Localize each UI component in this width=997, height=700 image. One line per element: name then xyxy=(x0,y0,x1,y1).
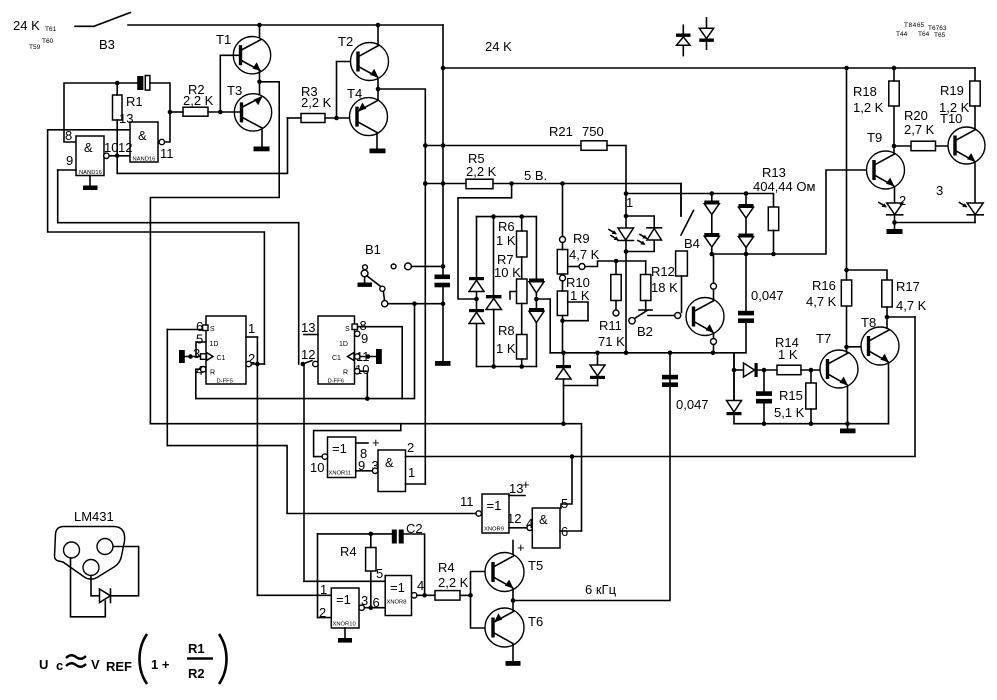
switch B2 lever xyxy=(635,311,648,319)
wire T1 emitter to T3 xyxy=(259,72,261,95)
wire T2-T4 node to x425 column xyxy=(378,89,425,484)
ground LED2 stem xyxy=(894,223,896,230)
node y254 chainB junction xyxy=(744,252,749,257)
svg-text:XNOR11: XNOR11 xyxy=(329,471,352,477)
LM431 pin circle center xyxy=(83,560,99,576)
wire right chain node to big line xyxy=(536,299,550,353)
node y423 T7 junction xyxy=(845,421,850,426)
wire diode pair right bottom xyxy=(597,379,599,386)
svg-text:750: 750 xyxy=(582,124,604,139)
wire FF5 1D loop xyxy=(196,342,206,357)
wire R2 right to T3 base xyxy=(208,111,242,113)
diode right chain upper xyxy=(529,279,544,294)
wire left rail B xyxy=(58,170,299,364)
bubble FF6 C1 xyxy=(355,354,360,359)
wire T1 base xyxy=(220,55,240,112)
wire middle chain bottom xyxy=(493,310,495,367)
ground XNOR10 xyxy=(338,638,352,643)
flip-flop D-FF6 box xyxy=(318,316,355,384)
resistor R9 xyxy=(557,250,567,275)
svg-text:1D: 1D xyxy=(339,341,348,348)
wire R4 top lead xyxy=(370,534,372,548)
bubble XNOR11 input xyxy=(322,454,327,459)
wire R18 bottom lead xyxy=(893,106,895,146)
bubble XNOR9 input xyxy=(476,511,481,516)
clock triangle C1 FF6 xyxy=(348,353,355,361)
node FF6 pin12 junction xyxy=(301,362,306,367)
node pin5 y456 junction xyxy=(570,454,575,459)
wire R9 wiper to y261 xyxy=(585,261,646,267)
diode pair left xyxy=(556,365,571,379)
svg-text:B1: B1 xyxy=(365,242,381,257)
node y352 x563 junction xyxy=(561,351,566,356)
wire FF6 pin13 stub xyxy=(304,334,318,336)
node base column junction xyxy=(468,593,473,598)
svg-text:R8: R8 xyxy=(498,323,515,338)
resistor R4 oscillator xyxy=(366,548,376,572)
node R2 left junction xyxy=(168,110,173,115)
capacitor cap2 upper plate xyxy=(756,391,772,396)
svg-text:11: 11 xyxy=(160,146,174,161)
node y261 R11 junction xyxy=(614,259,619,264)
capacitor NAND oscillator left plate xyxy=(137,76,143,90)
wire T2 collector xyxy=(377,25,379,44)
wire y254 line xyxy=(712,170,874,254)
svg-text:12: 12 xyxy=(118,140,132,155)
svg-text:T60: T60 xyxy=(42,38,54,45)
wire diode network top rail xyxy=(477,216,537,218)
resistor R16 xyxy=(841,280,851,306)
node R15 top junction xyxy=(809,368,814,373)
terminal circle R10 top xyxy=(560,275,566,281)
node y193 chainA junction xyxy=(710,191,715,196)
node x443 y68 junction xyxy=(441,66,446,71)
wire XNOR11 input from y430 xyxy=(314,424,401,457)
node T1 collector junction xyxy=(257,23,262,28)
svg-text:5: 5 xyxy=(196,332,203,347)
transistor T10 xyxy=(948,127,985,164)
wire chain A mid xyxy=(711,194,713,234)
LED indicator 3 xyxy=(960,203,984,215)
wire R20 left lead xyxy=(894,145,911,147)
svg-text:24 K: 24 K xyxy=(485,39,512,54)
node LED ground junction xyxy=(892,220,897,225)
svg-text:T65: T65 xyxy=(934,32,946,39)
wire B1 right contact to x443 xyxy=(411,265,443,267)
transistor T7 xyxy=(820,350,858,388)
svg-text:1,2 K: 1,2 K xyxy=(939,100,970,115)
svg-text:10 K: 10 K xyxy=(494,265,521,280)
diode standalone left xyxy=(676,25,691,55)
wire B1 pole to x443 xyxy=(388,303,443,305)
terminal circle B2 xyxy=(629,318,635,324)
svg-text:R2: R2 xyxy=(188,666,205,681)
node x424 y182 junction xyxy=(423,181,428,186)
ground T6 xyxy=(506,661,521,666)
svg-text:4: 4 xyxy=(417,578,424,593)
wire R17 bottom lead xyxy=(886,307,888,317)
gate XNOR11 box xyxy=(328,437,356,478)
svg-text:1: 1 xyxy=(408,465,415,480)
transistor T8 xyxy=(861,327,899,365)
wire R9 bottom to R10 circle xyxy=(562,274,564,275)
node T7 collector junction xyxy=(844,345,849,350)
wire cap left to rail xyxy=(64,83,137,142)
node B1 wire x414 junction xyxy=(412,301,417,306)
diode middle chain xyxy=(486,295,502,310)
ground T3 xyxy=(254,147,270,152)
node cap2 junction xyxy=(762,368,767,373)
wire T5 emitter to node xyxy=(512,589,514,601)
svg-text:&: & xyxy=(138,128,147,143)
wire FF5 pin6 down to y445 xyxy=(166,330,168,446)
wire FF6 pin12 column down xyxy=(303,364,305,581)
wire R13 bottom lead xyxy=(773,231,775,255)
wire R9 wiper out xyxy=(568,266,579,268)
bubble XNOR8 output xyxy=(412,593,417,598)
svg-text:R12: R12 xyxy=(651,264,675,279)
capacitor C2 left plate xyxy=(392,530,397,544)
wire XNOR10 output to XNOR8 xyxy=(364,607,385,609)
wire LED3 to y222 xyxy=(974,215,976,223)
node y254 chainA junction xyxy=(710,252,715,257)
wire right chain bottom xyxy=(535,323,537,367)
bubble NAND1 output xyxy=(104,153,109,158)
diode zener x734 xyxy=(727,401,742,416)
node B1 right contact x443 junction xyxy=(441,264,446,269)
pin square C1 FF5 xyxy=(201,354,207,360)
wire LED2 to ground node xyxy=(894,215,896,223)
ground T4 xyxy=(370,149,386,154)
wire LED pair top link xyxy=(626,216,654,228)
wire LM431 right pin loop xyxy=(111,547,139,596)
wire C2 branch column x317 xyxy=(318,534,332,618)
resistor R18 xyxy=(889,81,899,106)
svg-text:71 K: 71 K xyxy=(598,334,625,349)
wire LM431 left pin xyxy=(71,558,106,617)
node R18 y68 junction xyxy=(892,66,897,71)
bubble FF6 pin9 xyxy=(355,331,360,336)
wire R8 bottom lead xyxy=(521,359,523,367)
wire left chain upper xyxy=(476,217,478,277)
ground T7 stem xyxy=(847,424,849,429)
wire x626 column xyxy=(625,194,627,353)
switch B1 lever xyxy=(367,276,382,287)
wire R11 bottom lead xyxy=(615,301,617,311)
wire cap down to y352 xyxy=(734,323,746,353)
switch B4 body box xyxy=(676,251,688,276)
node network top R6 junction xyxy=(519,214,524,219)
resistor R2 xyxy=(183,107,208,116)
wire T4 emitter to ground xyxy=(376,133,378,149)
svg-text:T 8 4 65: T 8 4 65 xyxy=(904,22,924,29)
node C2 R4 junction xyxy=(369,532,374,537)
wire FF5 pin2 to rail A column xyxy=(251,363,264,365)
ground XNOR10 stem xyxy=(344,628,346,638)
svg-text:LM431: LM431 xyxy=(74,509,114,524)
wire FF6 pin8 to reset corner xyxy=(358,327,403,399)
svg-text:+: + xyxy=(522,477,530,492)
node x562 junction xyxy=(560,181,565,186)
terminal circle TB2 emitter xyxy=(711,339,717,345)
wire network bottom rail xyxy=(477,366,537,368)
svg-text:1D: 1D xyxy=(210,341,219,348)
svg-text:=1: =1 xyxy=(332,441,347,456)
formula approx xyxy=(66,655,86,667)
wire y183 5V rail xyxy=(425,183,466,185)
svg-text:U: U xyxy=(39,657,48,672)
svg-text:T61: T61 xyxy=(45,26,57,33)
gate ampersand no.1 box xyxy=(378,450,406,492)
wire TB2 collector xyxy=(713,254,715,300)
wire R11 top lead xyxy=(615,261,617,275)
wire R4 bottom lead xyxy=(370,571,372,608)
node R16 top junction xyxy=(844,268,849,273)
svg-text:R: R xyxy=(343,370,348,377)
node x846 y68 junction xyxy=(844,66,849,71)
wire diode pair left bottom xyxy=(564,379,598,386)
wire T10 emitter to LED3 xyxy=(974,163,976,204)
terminal circle R9 top xyxy=(560,237,566,243)
wire XNOR9 pin13 stub xyxy=(509,495,525,497)
svg-text:R19: R19 xyxy=(940,83,964,98)
svg-text:12: 12 xyxy=(301,347,315,362)
svg-text:R15: R15 xyxy=(779,388,803,403)
wire R14 to T7 base xyxy=(801,369,828,371)
svg-text:T8: T8 xyxy=(861,315,876,330)
wire gate2 pin5 up to y456 xyxy=(561,457,572,509)
svg-text:R20: R20 xyxy=(904,108,928,123)
ground B1 xyxy=(358,283,373,287)
svg-text:4,7 K: 4,7 K xyxy=(806,294,837,309)
node y254 R13 junction xyxy=(771,252,776,257)
svg-text:9: 9 xyxy=(66,153,73,168)
svg-text:24 K: 24 K xyxy=(13,18,40,33)
svg-text:2,2 K: 2,2 K xyxy=(466,164,497,179)
wire FF6 C1 to bar xyxy=(360,356,376,358)
resistor R13 xyxy=(768,207,778,231)
wire R9 column top xyxy=(562,184,564,237)
svg-text:3: 3 xyxy=(936,183,943,198)
wire left chain bottom xyxy=(476,324,478,367)
node bottom rail R8 junction xyxy=(519,364,524,369)
ground NAND1 stem xyxy=(89,176,91,186)
capacitor on x443 upper plate xyxy=(435,275,451,280)
node R14 diode junction xyxy=(732,368,737,373)
node T5 T6 output junction xyxy=(511,598,516,603)
svg-text:=1: =1 xyxy=(487,498,502,513)
svg-text:&: & xyxy=(385,455,394,470)
resistor R3 xyxy=(301,114,325,123)
svg-text:R9: R9 xyxy=(573,231,590,246)
svg-text:&: & xyxy=(539,512,548,527)
switch B4 wire from 5V xyxy=(680,184,682,217)
wire y222 LED link xyxy=(895,222,976,224)
wire cap right to output node xyxy=(150,83,170,142)
svg-text:S: S xyxy=(345,326,350,333)
wire LED pair bottom link xyxy=(626,240,654,252)
svg-text:B4: B4 xyxy=(684,236,700,251)
bubble FF6 R pin xyxy=(355,369,360,374)
gate NAND16 no.1 box xyxy=(76,136,104,176)
wire T3 emitter to ground xyxy=(261,129,263,147)
bubble FF6 pin12 xyxy=(313,361,318,366)
wire y270 to R17 xyxy=(847,270,888,280)
wire R18 top lead xyxy=(893,68,895,81)
svg-text:S: S xyxy=(210,326,215,333)
wire zener column xyxy=(733,353,735,424)
svg-text:R1: R1 xyxy=(126,94,143,109)
pin square S FF6 xyxy=(352,324,358,330)
wire XNOR10 pin1 line xyxy=(257,594,331,596)
wire chain A bottom xyxy=(711,247,713,254)
wire R16 top lead xyxy=(846,270,848,280)
wire T9 emitter to LED2 xyxy=(894,187,896,203)
svg-text:R21: R21 xyxy=(549,124,573,139)
capacitor NAND oscillator right plate xyxy=(145,76,150,91)
wire diode to R14 xyxy=(758,369,777,371)
wire y317 to x915 xyxy=(887,316,915,318)
svg-text:REF: REF xyxy=(106,659,132,674)
svg-text:1,2 K: 1,2 K xyxy=(853,100,884,115)
wire reset rail y398 xyxy=(196,304,415,399)
resistor R11 xyxy=(611,275,621,301)
wire R14 row left xyxy=(734,369,744,371)
svg-text:T4: T4 xyxy=(347,86,362,101)
resistor R15 xyxy=(806,383,816,409)
svg-text:T44: T44 xyxy=(896,31,908,38)
LM431 pin circle left xyxy=(64,542,80,558)
transistor T2 xyxy=(351,43,389,81)
svg-text:4,7 K: 4,7 K xyxy=(569,247,600,262)
wire gate1 pin2 long output xyxy=(406,317,916,457)
ground T7 xyxy=(840,429,856,434)
LM431 package outline xyxy=(55,527,125,580)
LED indicator 2 xyxy=(879,203,903,215)
capacitor 0,047 on x670 upper plate xyxy=(662,375,678,380)
capacitor on x443 lower plate xyxy=(435,283,451,288)
svg-text:D-FF5: D-FF5 xyxy=(217,379,233,385)
svg-text:0,047: 0,047 xyxy=(751,288,784,303)
svg-text:1: 1 xyxy=(248,321,255,336)
svg-text:=1: =1 xyxy=(336,592,351,607)
svg-text:D-FF6: D-FF6 xyxy=(328,379,344,385)
wire R3 left lead xyxy=(288,117,302,119)
svg-text:T59: T59 xyxy=(29,44,41,51)
terminal circle TB2 collector xyxy=(711,283,717,289)
node y423 R15 junction xyxy=(809,421,814,426)
node bottom rail mid junction xyxy=(491,364,496,369)
bubble R pin FF5 xyxy=(201,367,206,372)
svg-text:5,1 K: 5,1 K xyxy=(774,405,805,420)
svg-text:R: R xyxy=(210,370,215,377)
node T8 collector junction xyxy=(885,315,890,320)
node y193 chainB junction xyxy=(744,191,749,196)
wire T6 emitter to ground xyxy=(512,644,514,661)
svg-text:R1: R1 xyxy=(188,641,205,656)
wire NAND1 pin9 xyxy=(58,169,76,171)
svg-text:XNOR9: XNOR9 xyxy=(484,527,504,533)
wire R10 wiper xyxy=(568,302,588,321)
wire y=145 rail to R21 xyxy=(425,145,581,147)
gate XNOR10 box xyxy=(331,588,359,628)
svg-text:C1: C1 xyxy=(332,355,341,362)
wire B2 to transistor base xyxy=(648,315,675,317)
switch B4 lever xyxy=(681,211,694,236)
wire x846 supply column xyxy=(846,68,848,270)
wire XNOR9 output to gate2 xyxy=(509,527,527,529)
wire NAND1 output to NAND2 xyxy=(109,155,130,157)
formula close paren xyxy=(219,634,227,684)
svg-text:0,047: 0,047 xyxy=(676,397,709,412)
wire T7 emitter xyxy=(847,386,849,424)
diode chain A lower xyxy=(704,233,719,247)
wire x443 main column xyxy=(442,25,444,275)
resistor R20 xyxy=(911,141,936,151)
svg-text:R11: R11 xyxy=(599,318,622,333)
svg-text:R6: R6 xyxy=(498,219,515,234)
wire R15 top lead xyxy=(810,370,812,383)
node y352 x713 junction xyxy=(711,351,716,356)
node R10 bottom junction xyxy=(560,318,565,323)
wire diode pair left lead xyxy=(563,353,565,365)
svg-text:2,2 K: 2,2 K xyxy=(438,575,469,590)
node T2-T4 output junction xyxy=(376,87,381,92)
svg-text:9: 9 xyxy=(361,331,368,346)
wire T1 collector xyxy=(259,25,261,37)
diode chain B upper xyxy=(739,204,754,218)
ground x443 xyxy=(435,361,451,366)
terminal circle R9 wiper xyxy=(579,264,585,270)
svg-text:2: 2 xyxy=(319,605,326,620)
node T1 base to R2 junction xyxy=(218,110,223,115)
wire LM431 center pin xyxy=(91,576,100,596)
wire R9 top circle to box xyxy=(562,243,564,250)
svg-text:R13: R13 xyxy=(762,165,786,180)
wire chain B cap column xyxy=(745,254,747,311)
wire T8 collector stub xyxy=(886,317,888,329)
wire R12 top lead xyxy=(645,261,647,275)
svg-text:2,7 K: 2,7 K xyxy=(904,122,935,137)
svg-text:=1: =1 xyxy=(390,580,405,595)
wire right chain mid xyxy=(535,293,537,308)
switch B1 right contact small circle xyxy=(391,264,396,269)
formula open paren xyxy=(140,634,148,684)
wire NAND1 out to R3 xyxy=(117,118,287,173)
svg-text:4,7 K: 4,7 K xyxy=(896,298,927,313)
transistor T1 xyxy=(233,37,270,74)
svg-text:R17: R17 xyxy=(896,279,920,294)
node FF5 pin1-pin2 cross junction xyxy=(255,362,260,367)
wire B1 pivot to pole xyxy=(383,291,384,301)
wire R19 top corner xyxy=(974,68,976,81)
diode left chain lower xyxy=(469,309,484,324)
switch B1 pivot circle xyxy=(380,286,385,291)
svg-text:11: 11 xyxy=(460,494,474,509)
node diode pair y423 junction xyxy=(561,421,566,426)
wiper R7 xyxy=(510,292,517,300)
wire base junction up to T2 base xyxy=(337,62,359,119)
svg-text:2,2 K: 2,2 K xyxy=(301,95,332,110)
svg-text:1 K: 1 K xyxy=(570,288,590,303)
svg-text:T64: T64 xyxy=(918,31,930,38)
node R1 top junction xyxy=(115,81,120,86)
capacitor cap2 lower plate xyxy=(756,399,772,404)
resistor R19 xyxy=(970,81,980,106)
diode LM431 xyxy=(100,589,111,603)
flip-flop D-FF5 box xyxy=(206,316,246,384)
wire R21 right down to node 1 line xyxy=(607,146,626,194)
